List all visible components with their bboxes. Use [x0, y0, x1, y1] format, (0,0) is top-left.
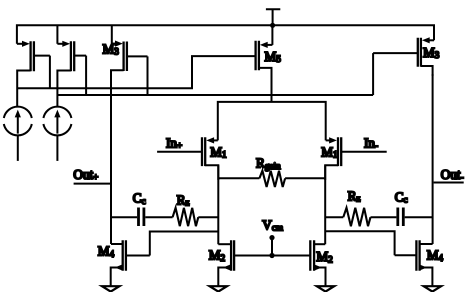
wire: Rz left to first-stage column	[198, 216, 218, 218]
wire: M3 right gate to line B	[372, 53, 374, 95]
svg-text:M1: M1	[210, 145, 227, 160]
wire: M3 left gate to line B	[147, 56, 149, 95]
node Vcm	[269, 235, 274, 258]
svg-text:Cc: Cc	[395, 189, 408, 204]
wire: Cc right to Out- column	[405, 216, 433, 218]
transistor M4 left (output NMOS)	[111, 240, 150, 286]
ground (under M4 right)	[424, 286, 441, 291]
transistor Mb1 (left bias PMOS, diode-connected)	[17, 41, 50, 107]
wire: Out- column (M3R drain / M4R drain / output node)	[432, 74, 434, 244]
transistor M4 right (output NMOS)	[395, 240, 433, 286]
node Out+	[74, 183, 111, 185]
node Out-	[434, 182, 464, 184]
svg-text:M3: M3	[423, 45, 440, 60]
svg-text:Rgain: Rgain	[256, 156, 281, 171]
transistor M3 right	[373, 37, 434, 76]
wire: first-stage output column right (M1R drain to M2R drain)	[324, 165, 326, 244]
wire: Cc left to Rz left	[145, 216, 172, 218]
wire: Rz right to Cc right	[371, 216, 397, 218]
wire: M4 left gate to first-stage column left	[150, 232, 219, 256]
transistor M5 (tail current PMOS)	[256, 25, 273, 102]
svg-text:In-: In-	[364, 135, 378, 150]
svg-text:Out-: Out-	[441, 167, 464, 182]
svg-text:Out+: Out+	[73, 167, 98, 182]
wire: Out+ column (M3L drain / M4L drain / output node)	[110, 78, 112, 244]
svg-text:Rz: Rz	[348, 188, 361, 203]
resistor Rgain	[218, 171, 325, 187]
wire: top VDD rail	[17, 25, 434, 44]
svg-text:M4: M4	[427, 248, 444, 263]
svg-text:M2: M2	[316, 249, 333, 264]
capacitor Cc right	[398, 208, 404, 227]
svg-text:Vcm: Vcm	[262, 217, 283, 232]
svg-text:M4: M4	[98, 244, 115, 259]
transistor M1 right (input pair)	[325, 137, 387, 180]
resistor Rz left	[173, 208, 199, 226]
wire: Out+ to Cc left	[111, 216, 137, 218]
ground (under M2 left)	[210, 286, 227, 291]
wire: M2 gates common line	[234, 255, 310, 257]
svg-text:M5: M5	[265, 49, 282, 64]
wire: first-stage output column left (M1L drain to M2L drain)	[217, 165, 219, 244]
transistor M2 left	[218, 240, 234, 286]
transistor M3 left	[111, 25, 148, 80]
transistor M2 right	[310, 240, 325, 286]
wire: Rz right from first-stage column	[325, 216, 343, 218]
capacitor Cc left	[139, 208, 144, 227]
wire: M4 right gate from first-stage column right	[325, 231, 394, 255]
ground (under M2 right)	[317, 286, 334, 291]
ground (under M4 left)	[102, 286, 119, 291]
wire: tail bus from M5 drain to M1 pair sources	[218, 102, 326, 140]
svg-text:Cc: Cc	[133, 191, 146, 206]
vdd supply	[266, 9, 280, 28]
transistor M1 left (input pair)	[157, 137, 218, 180]
svg-text:M2: M2	[209, 248, 226, 263]
svg-text:M1: M1	[321, 145, 338, 160]
resistor Rz right	[343, 208, 370, 226]
wire: Mb1 gate to line A	[49, 56, 51, 89]
transistor Mb2 (second bias PMOS, diode-connected)	[57, 25, 86, 107]
wire: Mb2 gate to line B	[85, 56, 87, 95]
wire: line B (Mb2 diode bus to M3 gates)	[57, 94, 373, 96]
current source I2	[43, 107, 71, 161]
svg-text:In+: In+	[166, 135, 182, 150]
current source I1	[4, 107, 32, 161]
wire: line A (Mb1 diode bus to M5 gate)	[17, 56, 255, 88]
svg-text:Rz: Rz	[177, 192, 190, 207]
